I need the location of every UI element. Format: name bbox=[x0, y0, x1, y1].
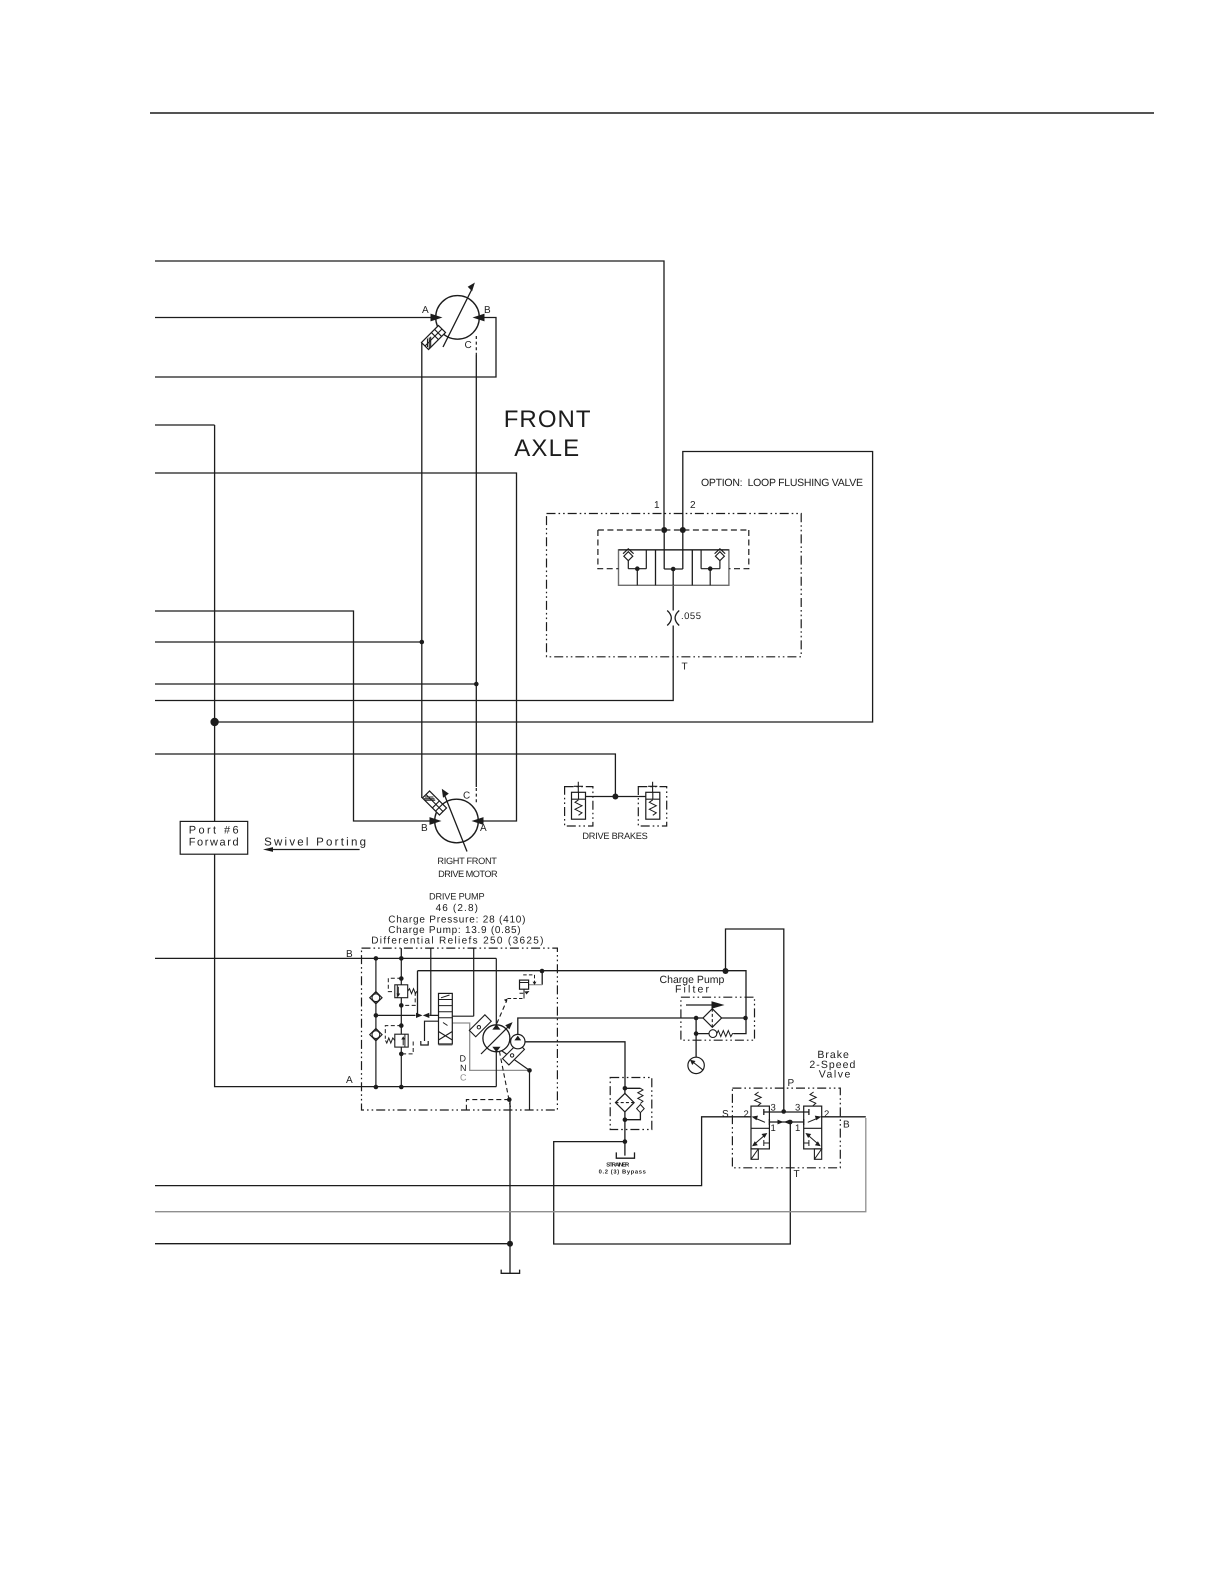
svg-text:B: B bbox=[484, 305, 491, 316]
svg-text:2: 2 bbox=[744, 1109, 749, 1120]
svg-text:C: C bbox=[465, 340, 472, 351]
svg-text:1: 1 bbox=[771, 1123, 776, 1134]
svg-text:FRONT: FRONT bbox=[504, 406, 591, 433]
svg-text:0.2 (3) Bypass: 0.2 (3) Bypass bbox=[599, 1169, 646, 1176]
svg-text:B: B bbox=[843, 1120, 850, 1131]
svg-text:3: 3 bbox=[771, 1103, 776, 1114]
svg-text:STRAINER: STRAINER bbox=[606, 1162, 630, 1169]
svg-text:Valve: Valve bbox=[819, 1069, 851, 1081]
svg-text:AXLE: AXLE bbox=[514, 435, 579, 462]
svg-text:A: A bbox=[480, 823, 487, 834]
svg-text:C: C bbox=[460, 1073, 467, 1083]
svg-text:DRIVE MOTOR: DRIVE MOTOR bbox=[438, 869, 498, 879]
svg-text:C: C bbox=[463, 791, 470, 802]
svg-text:DRIVE PUMP: DRIVE PUMP bbox=[429, 892, 485, 902]
svg-text:.055: .055 bbox=[681, 611, 702, 622]
svg-text:3: 3 bbox=[795, 1103, 800, 1114]
svg-text:46 (2.8): 46 (2.8) bbox=[436, 903, 478, 914]
svg-text:2: 2 bbox=[690, 500, 696, 511]
svg-text:P: P bbox=[788, 1078, 795, 1089]
svg-text:T: T bbox=[682, 662, 688, 673]
svg-text:2: 2 bbox=[824, 1109, 829, 1120]
svg-text:T: T bbox=[794, 1169, 800, 1180]
svg-text:OPTION: LOOP FLUSHING VALVE: OPTION: LOOP FLUSHING VALVE bbox=[701, 477, 863, 489]
svg-text:DRIVE BRAKES: DRIVE BRAKES bbox=[582, 831, 647, 841]
svg-text:B: B bbox=[346, 949, 353, 960]
svg-text:1: 1 bbox=[795, 1123, 800, 1134]
svg-text:A: A bbox=[346, 1075, 353, 1086]
svg-text:N: N bbox=[460, 1063, 467, 1073]
svg-text:1: 1 bbox=[654, 500, 660, 511]
svg-text:B: B bbox=[421, 823, 428, 834]
svg-text:S: S bbox=[722, 1109, 729, 1120]
svg-text:Charge Pump: 13.9 (0.85): Charge Pump: 13.9 (0.85) bbox=[388, 925, 520, 936]
svg-text:D: D bbox=[460, 1054, 467, 1064]
svg-text:A: A bbox=[422, 305, 429, 316]
svg-text:Charge Pressure: 28 (410): Charge Pressure: 28 (410) bbox=[388, 915, 525, 926]
svg-text:RIGHT FRONT: RIGHT FRONT bbox=[437, 856, 497, 866]
